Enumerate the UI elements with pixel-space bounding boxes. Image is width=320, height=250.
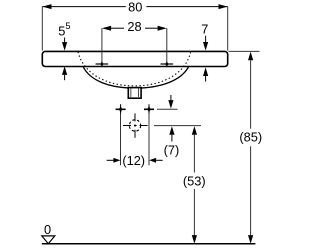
svg-text:(53): (53) (183, 174, 206, 189)
svg-text:28: 28 (127, 19, 141, 34)
svg-text:7: 7 (201, 21, 208, 36)
svg-text:(85): (85) (239, 130, 262, 145)
svg-text:55: 55 (58, 21, 70, 38)
svg-text:0: 0 (44, 222, 51, 237)
svg-text:(7): (7) (164, 143, 180, 158)
svg-text:80: 80 (128, 0, 142, 14)
svg-text:(12): (12) (122, 153, 145, 168)
